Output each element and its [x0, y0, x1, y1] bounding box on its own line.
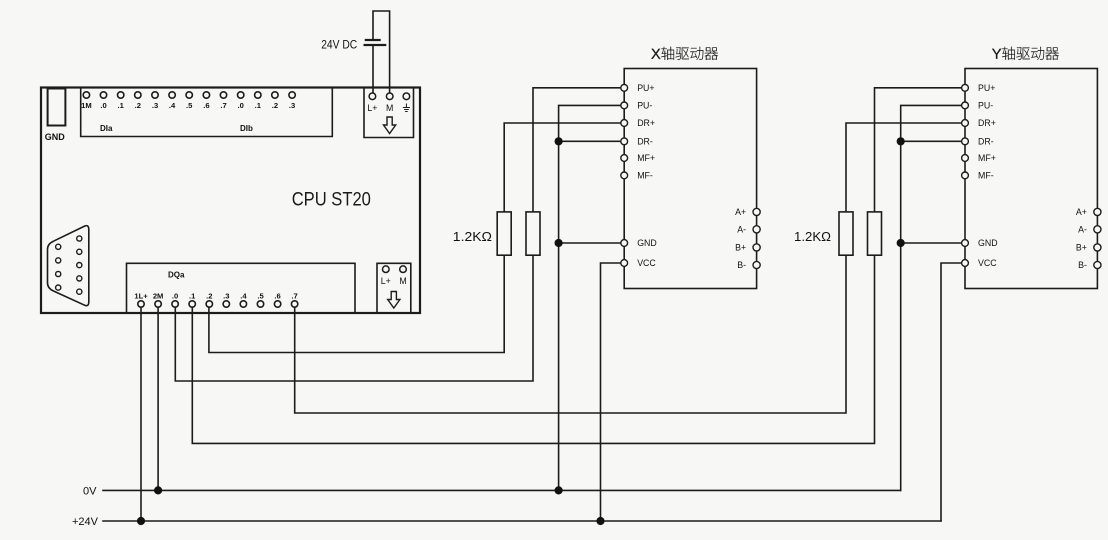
junction: X common net to 0V rail	[555, 486, 563, 494]
junction: Y GND to PU-/DR- net	[897, 239, 905, 247]
resistor R1 1.2K (X DR+)	[497, 212, 511, 255]
svg-text:.2: .2	[272, 101, 278, 110]
svg-text:M: M	[386, 103, 393, 113]
junction: PLC 2M to 0V rail	[154, 486, 162, 494]
Y driver input terminals PU+/PU-/DR+/DR-/MF+/MF-/GND/VCC	[962, 83, 998, 268]
svg-text:DR-: DR-	[978, 137, 994, 147]
svg-text:.2: .2	[135, 101, 141, 110]
X driver motor terminals A+/A-/B+/B-	[735, 207, 760, 270]
wire: PLC Q0.2 to resistor R1 to X DR+	[209, 123, 624, 353]
svg-text:.1: .1	[189, 292, 196, 301]
DB9 communication port	[48, 226, 89, 306]
PLC GND port	[45, 89, 66, 143]
wire: PLC Q0.0 to resistor R2 to X PU+	[175, 88, 624, 381]
DI terminal strip DIa/DIb	[81, 89, 333, 137]
svg-text:GND: GND	[45, 132, 66, 142]
svg-text:B+: B+	[735, 243, 746, 253]
svg-text:CPU ST20: CPU ST20	[292, 188, 371, 210]
svg-text:.4: .4	[240, 292, 247, 301]
stepper driver U2 (Y axis) box	[965, 69, 1097, 289]
svg-text:VCC: VCC	[637, 258, 656, 268]
svg-text:PU+: PU+	[978, 83, 995, 93]
svg-text:MF+: MF+	[978, 153, 996, 163]
wire: X VCC to +24V	[601, 263, 625, 521]
svg-text:A+: A+	[735, 207, 746, 217]
svg-text:1L+: 1L+	[134, 292, 148, 301]
DQ terminals 1L+ 2M .0-.7	[134, 292, 297, 308]
svg-text:DR+: DR+	[978, 118, 996, 128]
svg-text:PU+: PU+	[637, 83, 654, 93]
svg-text:1.2KΩ: 1.2KΩ	[794, 230, 831, 244]
junction: X VCC to +24V rail	[596, 517, 604, 525]
svg-text:DR-: DR-	[637, 137, 653, 147]
svg-text:DQa: DQa	[168, 271, 185, 280]
wire: PLC Q0.7 to resistor R3 to Y DR+	[295, 123, 965, 413]
resistor R3 1.2K (Y DR+)	[839, 212, 853, 255]
svg-text:PU-: PU-	[978, 101, 993, 111]
svg-text:A-: A-	[1078, 225, 1087, 235]
wire: Y VCC to +24V	[941, 263, 965, 521]
svg-text:.7: .7	[220, 101, 226, 110]
svg-text:B+: B+	[1076, 243, 1087, 253]
svg-text:.1: .1	[255, 101, 262, 110]
X axis driver title	[651, 47, 718, 60]
resistor R4 1.2K (Y PU+)	[868, 212, 882, 255]
wire: Y PU- / DR- / GND common to 0V	[901, 105, 965, 490]
svg-text:0V: 0V	[83, 486, 97, 498]
stepper driver U1 (X axis) box	[624, 69, 756, 289]
junction: X DR- to PU- net	[555, 137, 563, 145]
svg-text:A-: A-	[737, 225, 746, 235]
svg-text:GND: GND	[637, 238, 657, 248]
svg-text:B-: B-	[1078, 260, 1087, 270]
svg-text:.1: .1	[118, 101, 125, 110]
resistor R2 1.2K (X PU+)	[526, 212, 540, 255]
junction: PLC 1L+ to +24V rail	[137, 517, 145, 525]
output power terminal block L+ M (bottom right)	[377, 263, 411, 312]
svg-text:24V DC: 24V DC	[321, 38, 357, 52]
svg-text:MF+: MF+	[637, 153, 655, 163]
svg-text:GND: GND	[978, 238, 998, 248]
Y driver motor terminals A+/A-/B+/B-	[1076, 207, 1101, 270]
wire: X PU- / DR- / GND common to 0V	[559, 105, 625, 490]
svg-text:VCC: VCC	[978, 258, 997, 268]
svg-text:.0: .0	[100, 101, 106, 110]
PLC CPU ST20 body	[41, 88, 420, 314]
svg-text:.6: .6	[203, 101, 209, 110]
X driver input terminals PU+/PU-/DR+/DR-/MF+/MF-/GND/VCC	[621, 83, 657, 268]
DQ terminal strip DQa	[127, 263, 356, 312]
svg-text:MF-: MF-	[637, 171, 653, 181]
wire: PLC 1L+ down to +24V rail	[140, 307, 142, 521]
junction: Y DR- to PU- net	[897, 137, 905, 145]
svg-text:.6: .6	[274, 292, 280, 301]
0V rail	[103, 489, 901, 491]
svg-text:L+: L+	[367, 103, 377, 113]
svg-text:.3: .3	[223, 292, 229, 301]
svg-text:.0: .0	[172, 292, 178, 301]
svg-text:.0: .0	[238, 101, 244, 110]
svg-text:2M: 2M	[153, 292, 164, 301]
sensor power terminal block L+ M (top right)	[364, 89, 414, 138]
Y axis driver title	[992, 47, 1059, 60]
svg-text:DIb: DIb	[240, 124, 253, 133]
svg-text:1.2KΩ: 1.2KΩ	[453, 230, 492, 244]
svg-text:L+: L+	[381, 276, 391, 286]
svg-text:.7: .7	[291, 292, 297, 301]
junction: X GND to PU-/DR- net	[555, 239, 563, 247]
wire: PLC 2M down to 0V rail	[157, 307, 159, 490]
svg-text:.5: .5	[186, 101, 193, 110]
svg-text:PU-: PU-	[637, 101, 652, 111]
24V DC source	[321, 11, 389, 93]
svg-text:.4: .4	[169, 101, 176, 110]
svg-text:A+: A+	[1076, 207, 1087, 217]
svg-text:.5: .5	[257, 292, 264, 301]
svg-text:1M: 1M	[81, 101, 92, 110]
svg-text:MF-: MF-	[978, 171, 994, 181]
svg-text:M: M	[399, 276, 406, 286]
svg-text:DIa: DIa	[100, 124, 113, 133]
svg-text:.2: .2	[206, 292, 212, 301]
DI terminals 1M .0-.7 .0-.3	[81, 92, 295, 110]
svg-text:B-: B-	[737, 260, 746, 270]
svg-text:DR+: DR+	[637, 118, 655, 128]
svg-text:.3: .3	[289, 101, 295, 110]
+24V rail	[103, 520, 941, 522]
svg-text:.3: .3	[152, 101, 158, 110]
svg-text:+24V: +24V	[72, 516, 99, 528]
wire: PLC Q0.1 to resistor R4 to Y PU+	[192, 88, 965, 444]
